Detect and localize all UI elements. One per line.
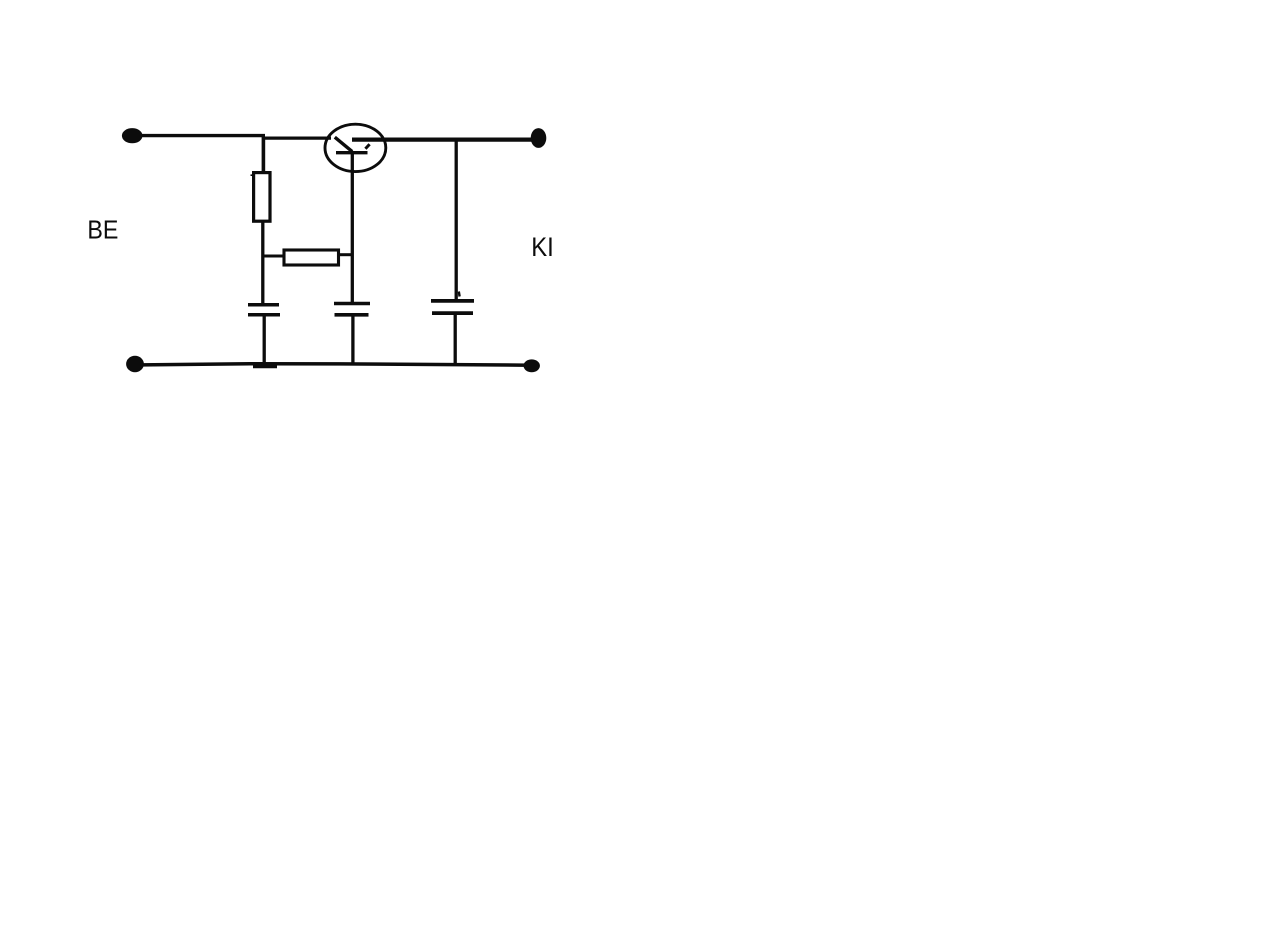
svg-text:KI: KI bbox=[531, 232, 554, 262]
svg-text:BE: BE bbox=[87, 214, 118, 244]
